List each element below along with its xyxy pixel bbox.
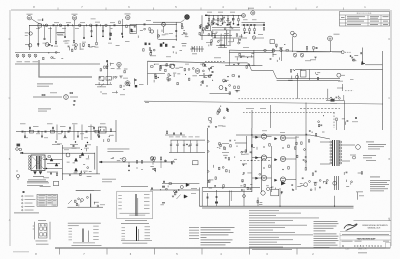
svg-text:C: C — [388, 97, 390, 100]
svg-text:0 0 8 0 7 0 5 0 0 0: 0 0 8 0 7 0 5 0 0 0 — [354, 244, 382, 248]
svg-text:+: + — [191, 143, 192, 145]
svg-text:D: D — [388, 38, 390, 41]
svg-text:+: + — [171, 143, 172, 145]
svg-text:C: C — [9, 97, 11, 100]
svg-text:TWIN REVERB AMP: TWIN REVERB AMP — [357, 237, 377, 240]
svg-text:+: + — [178, 143, 179, 145]
svg-text:+: + — [197, 143, 198, 145]
svg-text:SHEET 1 OF 1: SHEET 1 OF 1 — [358, 248, 367, 250]
svg-text:D: D — [9, 38, 11, 41]
svg-text:+: + — [184, 143, 185, 145]
